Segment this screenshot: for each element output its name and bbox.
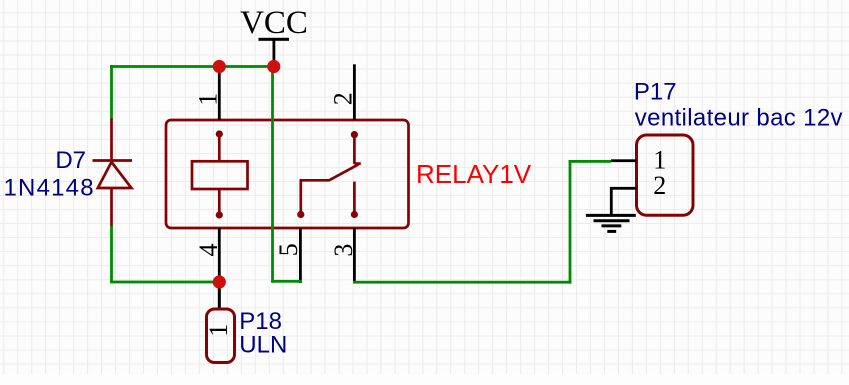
svg-text:1: 1 (204, 324, 233, 337)
wire net VCC horizontal (110, 65, 275, 68)
svg-text:3: 3 (329, 244, 358, 257)
ground symbol (586, 215, 636, 231)
pin 3 wire (353, 228, 356, 282)
svg-text:D7: D7 (55, 147, 86, 174)
svg-text:2: 2 (653, 171, 666, 200)
relay switch pin 5 dot (297, 211, 304, 218)
svg-text:VCC: VCC (240, 5, 308, 41)
svg-text:4: 4 (194, 244, 223, 257)
relay K1 body RELAY1V (166, 120, 409, 228)
svg-text:1: 1 (193, 93, 222, 106)
P17 pin 1 stub (611, 159, 636, 162)
wire riser to P17 pin 1 (569, 160, 612, 163)
wire diode to pin 4 horizontal (110, 281, 220, 284)
relay coil pin 4 dot (216, 211, 223, 218)
relay switch pin 3 dot (351, 211, 358, 218)
connector P17 body (637, 135, 694, 215)
junction at pin 4 (213, 275, 226, 288)
wire VCC to pin 5 vertical (271, 67, 274, 283)
svg-text:1N4148: 1N4148 (4, 175, 95, 202)
svg-text:2: 2 (329, 92, 358, 105)
diode D7 (93, 119, 133, 228)
svg-text:P17: P17 (634, 78, 677, 105)
wire right vertical riser (569, 160, 572, 284)
pin 5 wire (299, 228, 302, 283)
relay coil pin 1 dot (216, 130, 223, 137)
relay switch pin 2 dot (351, 131, 358, 138)
wire P17 pin 2 to ground (610, 187, 613, 216)
svg-text:ventilateur bac 12v: ventilateur bac 12v (635, 105, 843, 132)
power symbol VCC (240, 5, 308, 67)
wire pin 5 horizontal stub (271, 280, 302, 283)
pin 4 wire (218, 228, 221, 309)
svg-text:RELAY1V: RELAY1V (416, 159, 532, 189)
P17 pin 2 stub (611, 187, 636, 190)
junction at pin 1 / VCC net (213, 60, 226, 73)
svg-text:5: 5 (274, 243, 303, 256)
relay coil (192, 134, 248, 215)
wire net VCC left vertical (110, 65, 113, 120)
pin 1 wire (218, 67, 221, 121)
junction at VCC stem (267, 60, 280, 73)
wire pin 4 to P18 (218, 282, 221, 310)
pin 2 wire (353, 64, 356, 120)
wire pin 3 to P17 horizontal (353, 281, 571, 284)
svg-text:ULN: ULN (239, 331, 287, 358)
wire diode bottom vertical (110, 226, 113, 283)
connector P18 body (207, 309, 235, 363)
relay switch contact (301, 135, 361, 215)
